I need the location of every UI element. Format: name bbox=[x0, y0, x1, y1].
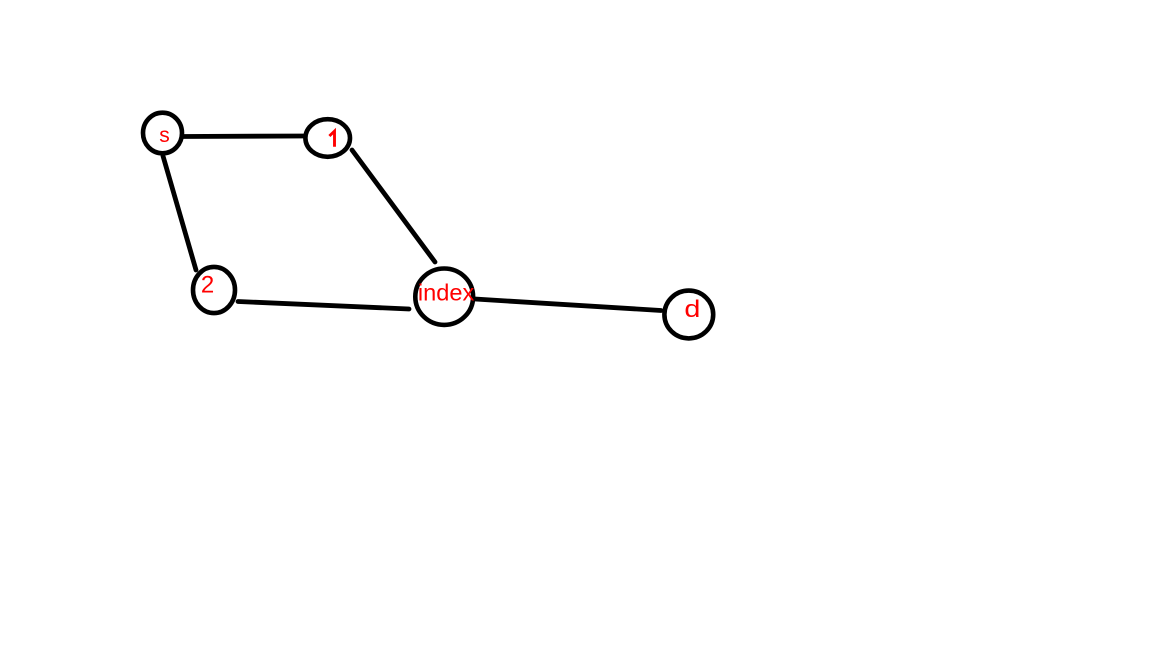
svg-text:s: s bbox=[159, 124, 170, 147]
wire index-d bbox=[475, 299, 661, 311]
wire s-2 bbox=[163, 156, 196, 270]
svg-text:index: index bbox=[418, 280, 475, 306]
svg-text:2: 2 bbox=[201, 272, 214, 299]
wire s-1 bbox=[182, 134, 304, 139]
svg-text:d: d bbox=[684, 296, 700, 323]
label 1 bbox=[329, 131, 334, 147]
node 2 bbox=[193, 267, 235, 313]
node 1 bbox=[305, 119, 350, 157]
node d bbox=[664, 291, 713, 339]
wire 2-index bbox=[238, 302, 409, 310]
node s bbox=[143, 113, 182, 154]
wire 1-index bbox=[352, 150, 435, 262]
node index bbox=[415, 269, 473, 325]
